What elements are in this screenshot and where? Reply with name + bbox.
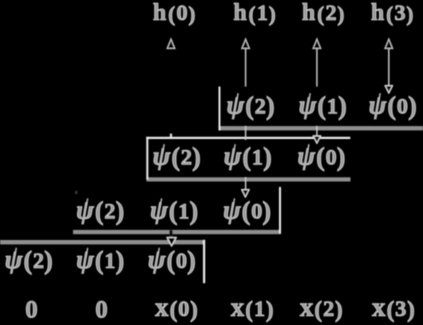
svg-text:(: ( <box>95 197 104 226</box>
svg-text:): ) <box>269 2 276 26</box>
svg-text:(: ( <box>317 91 326 120</box>
svg-text:1: 1 <box>252 144 263 169</box>
svg-text:(: ( <box>386 2 393 26</box>
svg-text:(: ( <box>170 297 178 322</box>
svg-text:1: 1 <box>104 248 115 273</box>
svg-text:): ) <box>188 2 195 26</box>
svg-text:0: 0 <box>95 297 108 324</box>
svg-text:ψ: ψ <box>299 89 317 119</box>
svg-text:h: h <box>371 0 384 26</box>
svg-text:(: ( <box>166 246 175 275</box>
svg-text:0: 0 <box>176 248 187 273</box>
svg-text:2: 2 <box>323 296 334 321</box>
svg-text:): ) <box>266 297 274 322</box>
svg-text:): ) <box>116 246 125 275</box>
svg-text:): ) <box>263 142 272 171</box>
svg-text:0: 0 <box>178 296 189 321</box>
svg-text:(: ( <box>242 142 251 171</box>
svg-text:2: 2 <box>255 93 266 118</box>
svg-text:ψ: ψ <box>150 195 168 225</box>
svg-text:(: ( <box>249 2 256 26</box>
svg-text:): ) <box>262 197 271 226</box>
svg-text:(: ( <box>245 91 254 120</box>
svg-text:2: 2 <box>325 0 336 25</box>
svg-text:3: 3 <box>395 296 406 321</box>
svg-text:0: 0 <box>397 93 408 118</box>
svg-text:): ) <box>408 91 417 120</box>
svg-text:(: ( <box>169 197 178 226</box>
svg-text:): ) <box>338 91 347 120</box>
svg-text:(: ( <box>317 2 324 26</box>
svg-text:): ) <box>192 142 201 171</box>
svg-text:2: 2 <box>33 248 44 273</box>
svg-text:x: x <box>155 292 169 322</box>
svg-text:ψ: ψ <box>76 244 94 274</box>
svg-text:1: 1 <box>327 93 338 118</box>
svg-text:x: x <box>300 292 314 322</box>
svg-text:h: h <box>302 0 315 26</box>
svg-text:ψ: ψ <box>148 244 166 274</box>
svg-text:): ) <box>44 246 53 275</box>
svg-text:): ) <box>189 197 198 226</box>
svg-text:(: ( <box>23 246 32 275</box>
svg-text:ψ: ψ <box>297 140 315 170</box>
svg-text:0: 0 <box>251 199 262 224</box>
svg-text:(: ( <box>168 2 175 26</box>
svg-text:ψ: ψ <box>369 89 387 119</box>
svg-text:ψ: ψ <box>223 195 241 225</box>
svg-text:1: 1 <box>257 0 268 25</box>
svg-text:ψ: ψ <box>153 140 171 170</box>
svg-text:): ) <box>266 91 275 120</box>
svg-text:0: 0 <box>25 297 38 324</box>
svg-text:ψ: ψ <box>227 89 245 119</box>
svg-text:): ) <box>335 297 343 322</box>
svg-text:3: 3 <box>394 0 405 25</box>
svg-text:): ) <box>187 246 196 275</box>
svg-text:0: 0 <box>176 0 187 25</box>
svg-text:2: 2 <box>104 199 115 224</box>
svg-text:(: ( <box>95 246 104 275</box>
svg-text:1: 1 <box>254 296 265 321</box>
svg-text:x: x <box>372 292 386 322</box>
svg-text:(: ( <box>316 142 325 171</box>
svg-text:): ) <box>406 2 413 26</box>
svg-text:(: ( <box>245 297 253 322</box>
svg-text:h: h <box>153 0 166 26</box>
svg-text:): ) <box>337 142 346 171</box>
svg-text:): ) <box>337 2 344 26</box>
svg-text:1: 1 <box>178 199 189 224</box>
svg-text:): ) <box>190 297 198 322</box>
svg-text:): ) <box>407 297 415 322</box>
svg-text:(: ( <box>242 197 251 226</box>
svg-text:0: 0 <box>325 144 336 169</box>
svg-text:(: ( <box>387 297 395 322</box>
svg-text:(: ( <box>387 91 396 120</box>
svg-text:2: 2 <box>181 144 192 169</box>
svg-text:x: x <box>231 292 245 322</box>
svg-text:(: ( <box>314 297 322 322</box>
svg-text:ψ: ψ <box>76 195 94 225</box>
svg-text:): ) <box>116 197 125 226</box>
svg-text:ψ: ψ <box>5 244 23 274</box>
svg-text:ψ: ψ <box>224 140 242 170</box>
svg-text:(: ( <box>171 142 180 171</box>
svg-text:h: h <box>233 0 246 26</box>
